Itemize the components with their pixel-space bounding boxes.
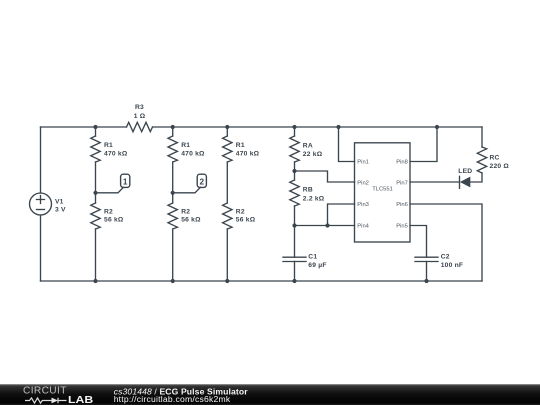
svg-text:Pin4: Pin4 [357,223,369,229]
node 1 flag [121,174,130,187]
resistor RC [477,147,486,173]
svg-text:R1: R1 [181,142,190,149]
wire C1 bottom [294,262,296,282]
footer logo diode triangle [52,398,59,404]
svg-text:RC: RC [490,155,500,162]
svg-text:100 nF: 100 nF [441,262,464,269]
wire col1 mid [95,162,97,203]
junction bottom C1 [292,279,296,283]
resistor R2 (col3) [223,203,232,229]
wire col3 bottom [226,229,228,281]
svg-text:RB: RB [303,187,313,194]
wire left rail lower [40,215,42,281]
node 2 flag [197,174,206,187]
svg-text:R1: R1 [104,142,113,149]
V1 minus sign [37,209,45,211]
junction bottom C2 [424,279,428,283]
svg-text:R3: R3 [135,104,144,111]
footer logo LAB [68,395,93,405]
svg-text:Pin3: Pin3 [357,202,369,208]
svg-text:22 kΩ: 22 kΩ [303,151,323,158]
resistor R2 (col2) [168,203,177,229]
svg-text:C1: C1 [308,254,317,261]
svg-text:Pin5: Pin5 [396,223,408,229]
wire pin5 net [410,226,427,258]
svg-text:2: 2 [200,177,205,186]
capacitor C1 [283,257,306,261]
svg-text:LED: LED [458,168,472,175]
wire RA to junction [294,162,296,180]
footer logo resistor-diode wire [25,398,67,404]
junction top col1 [93,125,97,129]
wire to node 2 flag [173,187,201,193]
svg-text:R2: R2 [104,208,113,215]
junction top col2 [171,125,175,129]
wire to node 1 flag [96,187,124,193]
junction top col3 [225,125,229,129]
svg-text:1 Ω: 1 Ω [134,113,146,120]
svg-text:2.2 kΩ: 2.2 kΩ [303,195,325,202]
svg-text:LAB: LAB [68,395,93,405]
wire pin7 net [410,181,460,183]
wire col2 mid [172,162,174,203]
svg-text:Pin2: Pin2 [357,180,369,186]
wire RC top [481,127,483,147]
wire pin4 net [295,225,355,227]
resistor R1 (col3) [223,136,232,162]
V1 plus sign [37,196,45,204]
svg-text:470 kΩ: 470 kΩ [104,151,128,158]
wire col1 top [95,127,97,136]
svg-text:http://circuitlab.com/cs6k2mk: http://circuitlab.com/cs6k2mk [114,394,231,404]
svg-text:Pin8: Pin8 [396,159,408,165]
svg-text:CIRCUIT: CIRCUIT [23,386,67,397]
wire pin2 net [295,171,355,182]
wire top rail [41,126,127,128]
svg-text:R2: R2 [181,208,190,215]
footer bar [0,384,540,405]
svg-text:TLC551: TLC551 [372,187,393,193]
junction bottom col3 [225,279,229,283]
resistor R3 [127,122,153,131]
svg-text:56 kΩ: 56 kΩ [236,217,256,224]
junction top col4 [292,125,296,129]
wire col2 bottom [172,229,174,281]
svg-text:220 Ω: 220 Ω [490,163,510,170]
svg-text:R1: R1 [236,142,245,149]
svg-text:RA: RA [303,143,313,150]
svg-text:Pin6: Pin6 [396,202,408,208]
voltage source V1 [30,193,52,215]
svg-text:V1: V1 [55,198,64,205]
junction node 1 [93,191,97,195]
wire RB to pin4 junction [294,206,296,257]
svg-text:69 µF: 69 µF [308,262,326,269]
wire pin1 net [339,127,355,162]
junction top pin8 [435,125,439,129]
junction bottom col1 [93,279,97,283]
svg-text:3 V: 3 V [55,207,66,214]
wire col2 top [172,127,174,136]
svg-text:C2: C2 [441,254,450,261]
capacitor C2 [415,257,438,261]
op-amp U1 box TLC551 [355,143,411,242]
resistor RB [290,180,299,206]
LED cathode bar [459,176,461,188]
resistor R1 (col1) [91,136,100,162]
svg-text:R2: R2 [236,208,245,215]
wire pin6 net [410,204,482,281]
svg-text:56 kΩ: 56 kΩ [104,217,124,224]
svg-text:1: 1 [123,177,128,186]
wire col4 top [294,127,296,136]
junction pin3-pin4 [325,223,329,227]
wire col3 mid [226,162,228,203]
svg-text:Pin1: Pin1 [357,159,369,165]
svg-text:Pin7: Pin7 [396,180,408,186]
svg-text:470 kΩ: 470 kΩ [236,151,260,158]
resistor R1 (col2) [168,136,177,162]
wire left rail upper [40,127,42,193]
wire col1 bottom [95,229,97,281]
LED triangle [460,177,470,188]
junction bottom col2 [171,279,175,283]
resistor RA [290,136,299,162]
resistor R2 (col1) [91,203,100,229]
wire pin8 net [410,127,437,162]
svg-text:470 kΩ: 470 kΩ [181,151,205,158]
junction node 2 [171,191,175,195]
wire pin3 net [328,204,355,226]
wire bottom rail [41,280,483,282]
wire top rail right of R3 [153,126,483,128]
junction top pin1 [336,125,340,129]
junction RA-RB [292,169,296,173]
wire C2 bottom [426,262,428,282]
wire LED to RC [470,173,482,182]
svg-text:56 kΩ: 56 kΩ [181,217,201,224]
wire col3 top [226,127,228,136]
junction RB-pin4 [292,223,296,227]
